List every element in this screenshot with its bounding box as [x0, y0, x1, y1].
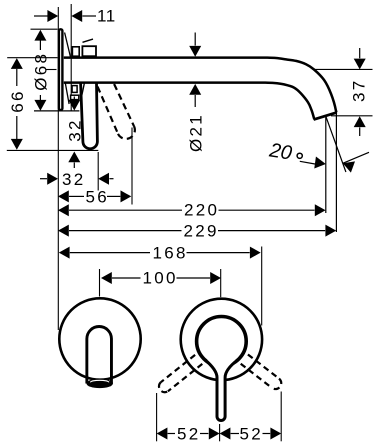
- spout bottom edge: [64, 83, 314, 120]
- wire: spout tip vertical projection: [335, 111, 337, 233]
- escutcheon bottom extension line: [34, 110, 79, 112]
- svg-text:52: 52: [177, 424, 201, 443]
- svg-text:52: 52: [240, 424, 264, 443]
- handle lever (solid, down position): [81, 83, 98, 149]
- escutcheon cone edge top: [65, 33, 71, 58]
- dimension 100: [100, 269, 222, 298]
- svg-text:100: 100: [143, 269, 178, 288]
- svg-text:229: 229: [184, 221, 219, 240]
- svg-text:56: 56: [86, 188, 110, 207]
- hardware below spout (cartridge boxes): [71, 84, 85, 100]
- escutcheon (wall rosette, side view): [59, 29, 71, 110]
- wire: outlet projection line (20° line): [325, 116, 327, 213]
- right trim: lever boss circle: [197, 317, 247, 367]
- dimension Ø21 (spout): [187, 33, 206, 153]
- svg-text:168: 168: [153, 244, 188, 263]
- right trim: escutcheon circle (front view): [181, 299, 262, 380]
- escutcheon cone edge bottom / handle collar edge: [65, 83, 69, 104]
- dimension 168: [59, 244, 262, 326]
- spout outlet face: [314, 112, 337, 119]
- concealed body hardware above spout: [72, 39, 96, 56]
- right trim: dashed lever (right position): [241, 355, 282, 390]
- spout top edge: [64, 58, 337, 113]
- right trim: lever stem with flare (solid, down): [205, 360, 238, 421]
- dimension 229: [58, 221, 336, 240]
- svg-text:220: 220: [184, 201, 219, 220]
- left trim: knob end face (dark ellipse): [86, 379, 113, 388]
- svg-text:20: 20: [267, 139, 293, 164]
- left trim: escutcheon circle (front view): [59, 298, 140, 379]
- svg-text:32: 32: [62, 170, 86, 189]
- svg-text:66: 66: [8, 89, 27, 113]
- wire: escutcheon face extension line (long vertical left reference): [57, 7, 59, 330]
- right trim: dashed lever (left position): [159, 355, 202, 392]
- dimension 32 (horizontal): [40, 152, 114, 191]
- dimension 52 + 52 (bottom): [157, 392, 282, 444]
- handle lever (dashed, raised position): [98, 84, 135, 139]
- dimension 37 (right): [314, 48, 373, 136]
- dimension 66 (far left): [7, 58, 99, 151]
- dimension 220: [58, 201, 326, 220]
- dimension 11 (top): [34, 7, 116, 26]
- 20° label and leaders: [267, 139, 369, 172]
- wire: wall line: [70, 4, 72, 111]
- svg-text:32: 32: [66, 118, 85, 142]
- dimension 56: [58, 128, 132, 207]
- svg-text:37: 37: [350, 79, 369, 103]
- svg-text:11: 11: [97, 7, 116, 26]
- collar right slant: [82, 84, 85, 96]
- left trim: cylindrical knob handle: [87, 327, 112, 384]
- 20 degree outlet direction line: [326, 116, 346, 172]
- dimension Ø68 (left of escutcheon): [31, 29, 58, 111]
- svg-text:Ø21: Ø21: [187, 113, 206, 152]
- dimension 32 (vertical, handle length): [66, 97, 85, 169]
